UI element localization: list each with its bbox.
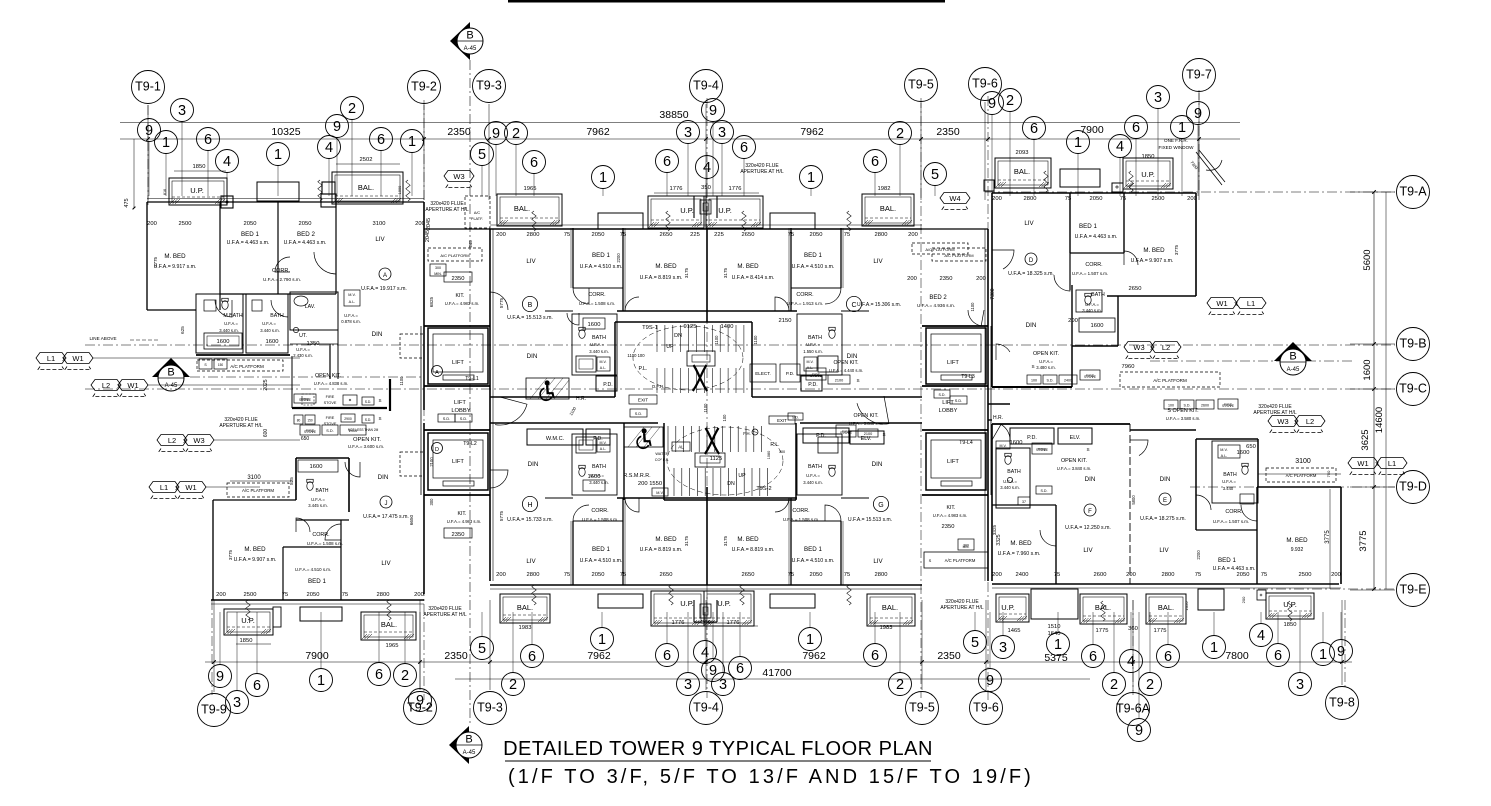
svg-text:H: H bbox=[527, 502, 532, 509]
svg-text:1965: 1965 bbox=[386, 643, 399, 649]
svg-text:2025: 2025 bbox=[263, 379, 269, 390]
svg-text:9: 9 bbox=[988, 96, 996, 112]
grid bubble T9-8 bbox=[1326, 687, 1359, 720]
svg-text:U.F.A.=: U.F.A.= bbox=[1003, 479, 1017, 484]
svg-text:1600: 1600 bbox=[217, 339, 230, 345]
grid bubble 2 bbox=[505, 122, 528, 145]
svg-text:3775: 3775 bbox=[153, 256, 158, 267]
svg-text:M. BED: M. BED bbox=[1010, 540, 1032, 547]
window screen mark bbox=[847, 585, 851, 605]
svg-text:UP: UP bbox=[738, 473, 746, 479]
svg-text:2050: 2050 bbox=[307, 592, 320, 598]
toilet fixture bbox=[829, 468, 835, 477]
grid bubble 1 bbox=[592, 166, 615, 189]
svg-text:U.P.: U.P. bbox=[1001, 603, 1015, 612]
leader line bbox=[531, 612, 533, 645]
svg-text:2350: 2350 bbox=[936, 126, 960, 138]
grid bubble 6 bbox=[521, 645, 544, 668]
leader line bbox=[1299, 612, 1301, 673]
unit D a/c platform bbox=[1120, 372, 1220, 387]
grid bubble 9 bbox=[979, 669, 1002, 692]
svg-text:A-45: A-45 bbox=[463, 750, 476, 756]
svg-text:6: 6 bbox=[528, 649, 536, 665]
svg-text:75: 75 bbox=[788, 232, 794, 238]
svg-text:WATER: WATER bbox=[655, 452, 669, 456]
unit E m.bed bbox=[1257, 486, 1341, 488]
a/c platform above kit bbox=[465, 196, 490, 228]
unit H outer walls bbox=[490, 584, 922, 586]
grid bubble 6 bbox=[656, 150, 679, 173]
svg-text:6: 6 bbox=[663, 154, 671, 170]
lower stair labels bbox=[672, 442, 690, 451]
window screen mark bbox=[669, 585, 673, 605]
svg-text:ELV.: ELV. bbox=[1070, 435, 1081, 441]
window tag W1 bbox=[1348, 458, 1378, 469]
svg-text:2.430 s.m.: 2.430 s.m. bbox=[293, 353, 313, 358]
svg-text:S.D.: S.D. bbox=[1041, 489, 1048, 493]
svg-text:1400: 1400 bbox=[721, 324, 734, 330]
leader line bbox=[899, 145, 901, 197]
svg-text:1080: 1080 bbox=[767, 451, 771, 459]
svg-text:1: 1 bbox=[1210, 640, 1218, 656]
svg-text:P.D.: P.D. bbox=[1027, 435, 1037, 441]
svg-text:9125: 9125 bbox=[684, 324, 697, 330]
svg-text:2: 2 bbox=[348, 101, 356, 117]
svg-text:APERTURE AT H/L: APERTURE AT H/L bbox=[425, 207, 469, 213]
structural pier bbox=[598, 213, 643, 229]
svg-text:U.P.: U.P. bbox=[241, 616, 255, 625]
grid bubble 9 bbox=[138, 119, 161, 142]
window tag L2 bbox=[91, 380, 121, 391]
svg-text:U.F.A.= 4.510 s.m.: U.F.A.= 4.510 s.m. bbox=[580, 264, 623, 270]
leader line bbox=[1138, 612, 1140, 719]
svg-text:OPEN KIT.: OPEN KIT. bbox=[853, 413, 878, 419]
svg-text:3.480 s.m.: 3.480 s.m. bbox=[1036, 365, 1056, 370]
svg-text:T9-3: T9-3 bbox=[477, 700, 503, 714]
wheelchair lower + hatch bbox=[624, 427, 663, 447]
svg-text:9: 9 bbox=[709, 103, 717, 119]
svg-text:U.F.A.= 4.463 s.m.: U.F.A.= 4.463 s.m. bbox=[1075, 234, 1118, 240]
svg-text:R.S.M.R.R.: R.S.M.R.R. bbox=[623, 473, 650, 479]
grid bubble 6 bbox=[864, 150, 887, 173]
svg-text:T9-A: T9-A bbox=[1399, 184, 1427, 198]
svg-text:1776: 1776 bbox=[670, 186, 683, 192]
toilet fixture bbox=[1242, 466, 1248, 475]
window tag L2 bbox=[1151, 342, 1181, 353]
grid bubble 1 bbox=[1312, 643, 1335, 666]
leader line bbox=[236, 612, 238, 691]
svg-text:U.F.A.=: U.F.A.= bbox=[590, 473, 604, 478]
grid bubble 3 bbox=[711, 121, 734, 144]
svg-text:ONE F.R.R.: ONE F.R.R. bbox=[1164, 138, 1188, 143]
svg-text:2: 2 bbox=[1146, 677, 1154, 693]
leader line bbox=[515, 145, 517, 197]
grid bubble 1 bbox=[591, 628, 614, 651]
svg-text:S.D.: S.D. bbox=[955, 399, 962, 403]
leader line bbox=[351, 120, 353, 197]
svg-text:CORR.: CORR. bbox=[796, 292, 813, 298]
svg-text:APERTURE AT H/L: APERTURE AT H/L bbox=[423, 612, 467, 618]
stair cross mark bbox=[705, 428, 719, 454]
svg-text:6: 6 bbox=[1132, 120, 1140, 136]
grid bubble 4 bbox=[696, 156, 719, 179]
svg-text:CORR.: CORR. bbox=[588, 292, 605, 298]
svg-text:9: 9 bbox=[492, 126, 500, 142]
corridor walls bbox=[490, 396, 615, 398]
grid bubble T9-C bbox=[1397, 373, 1430, 406]
window tag L2 bbox=[157, 435, 187, 446]
unit J door swings bbox=[325, 524, 341, 540]
svg-text:6: 6 bbox=[663, 648, 671, 664]
grid bubble 6 bbox=[1157, 645, 1180, 668]
right wing corridor walls bbox=[988, 403, 1010, 405]
grid bubble 4 bbox=[216, 150, 239, 173]
svg-text:2800: 2800 bbox=[875, 572, 888, 578]
window screen mark bbox=[406, 180, 410, 201]
svg-text:7962: 7962 bbox=[802, 650, 826, 662]
grid bubble 5 bbox=[964, 631, 987, 654]
section marker B A-45 bbox=[449, 726, 469, 764]
top dimension line second bbox=[120, 138, 1240, 140]
window screen mark bbox=[1044, 171, 1048, 192]
grid leader line bbox=[213, 600, 215, 692]
svg-text:U.F.A.= 1.508 s.m.: U.F.A.= 1.508 s.m. bbox=[783, 517, 819, 522]
svg-text:T9-8: T9-8 bbox=[1329, 695, 1355, 709]
unit A outer walls bbox=[147, 201, 424, 203]
grid bubble 1 bbox=[267, 143, 290, 166]
corridor hatch + wheelchair upper bbox=[526, 378, 569, 399]
grid bubble 6 bbox=[1082, 645, 1105, 668]
svg-text:3325: 3325 bbox=[992, 524, 997, 535]
leader line bbox=[739, 612, 741, 657]
svg-text:L1: L1 bbox=[1247, 299, 1255, 308]
window tag L1 bbox=[149, 482, 179, 493]
svg-text:6825: 6825 bbox=[429, 296, 434, 307]
svg-text:U.F.A.= 4.463 s.m.: U.F.A.= 4.463 s.m. bbox=[284, 240, 327, 246]
svg-text:STOVE: STOVE bbox=[304, 430, 317, 434]
svg-text:W3: W3 bbox=[193, 436, 204, 445]
svg-text:LIFT: LIFT bbox=[452, 459, 464, 465]
svg-text:1775: 1775 bbox=[1154, 628, 1167, 634]
unit A door swings bbox=[215, 300, 232, 317]
window screen mark bbox=[318, 180, 322, 201]
svg-text:S.D.: S.D. bbox=[635, 412, 642, 416]
svg-text:5: 5 bbox=[971, 635, 979, 651]
svg-text:1776: 1776 bbox=[727, 620, 740, 626]
svg-text:U.F.A.= 4.983 s.m.: U.F.A.= 4.983 s.m. bbox=[933, 513, 968, 518]
svg-text:1850: 1850 bbox=[240, 638, 253, 644]
svg-text:U.F.A.= 15.306 s.m.: U.F.A.= 15.306 s.m. bbox=[857, 302, 901, 308]
svg-text:A-45: A-45 bbox=[165, 383, 178, 389]
tag leader line bbox=[148, 384, 300, 386]
svg-text:3175: 3175 bbox=[723, 267, 728, 278]
svg-text:W3: W3 bbox=[453, 172, 464, 181]
svg-text:3625: 3625 bbox=[1360, 429, 1371, 450]
grid bubble T9-3 bbox=[474, 692, 507, 725]
lower core walls bbox=[663, 423, 665, 500]
svg-text:300: 300 bbox=[429, 498, 434, 506]
svg-text:U.F.A.= 8.414 s.m.: U.F.A.= 8.414 s.m. bbox=[732, 275, 775, 281]
unit B P.D. bbox=[596, 376, 617, 391]
lift T9-L4 bbox=[926, 433, 986, 490]
unit A bath band bbox=[196, 294, 243, 353]
grid bubble T9-2 bbox=[404, 692, 437, 725]
svg-text:2650: 2650 bbox=[1129, 286, 1142, 292]
svg-text:P.D.: P.D. bbox=[816, 433, 826, 439]
svg-text:2050: 2050 bbox=[1237, 572, 1250, 578]
balcony BAL. bbox=[361, 612, 416, 640]
unit F bath bbox=[996, 448, 1030, 508]
leader line bbox=[320, 612, 322, 669]
window tag W3 bbox=[184, 435, 214, 446]
upper core side boxes bbox=[614, 360, 616, 397]
lower stair arc bbox=[667, 427, 783, 495]
unit C partitions bbox=[840, 228, 842, 288]
grid leader line bbox=[1198, 93, 1200, 200]
svg-text:2502: 2502 bbox=[360, 157, 373, 163]
svg-text:A: A bbox=[383, 273, 387, 279]
svg-text:U.F.A.= 7.960 s.m.: U.F.A.= 7.960 s.m. bbox=[998, 551, 1041, 557]
svg-text:75: 75 bbox=[1065, 196, 1071, 202]
window tag W4 bbox=[940, 193, 970, 204]
lower core left wall bbox=[623, 423, 625, 500]
svg-text:7900: 7900 bbox=[1080, 124, 1104, 136]
svg-text:S: S bbox=[856, 378, 859, 383]
grid bubble T9-6A bbox=[1117, 693, 1150, 726]
svg-text:T9-1: T9-1 bbox=[135, 79, 161, 93]
grid bubble 6 bbox=[246, 674, 269, 697]
svg-text:BATH: BATH bbox=[808, 464, 822, 470]
svg-text:BAL.: BAL. bbox=[880, 204, 896, 213]
svg-text:9: 9 bbox=[1194, 106, 1202, 122]
leader line bbox=[1167, 612, 1169, 645]
svg-text:LIFT: LIFT bbox=[942, 400, 954, 406]
grid bubble 1 bbox=[310, 669, 333, 692]
svg-text:M. BED: M. BED bbox=[1286, 537, 1308, 544]
svg-text:M.V.: M.V. bbox=[999, 444, 1006, 448]
toilet fixture bbox=[222, 301, 228, 310]
svg-text:37: 37 bbox=[1022, 500, 1026, 504]
svg-text:W.M.C.: W.M.C. bbox=[546, 436, 565, 442]
grid leader line bbox=[985, 600, 987, 690]
grid leader line bbox=[423, 105, 425, 200]
section marker B A-45 bbox=[1274, 342, 1312, 361]
svg-text:W1: W1 bbox=[1216, 299, 1227, 308]
bottom dimension line bbox=[205, 661, 1352, 663]
leader line bbox=[512, 612, 514, 673]
svg-text:LIV: LIV bbox=[1159, 547, 1169, 554]
svg-text:1983: 1983 bbox=[519, 625, 532, 631]
leader line bbox=[481, 612, 483, 637]
svg-text:A/C PLATFORM: A/C PLATFORM bbox=[440, 253, 469, 258]
svg-text:9: 9 bbox=[216, 669, 224, 685]
svg-text:U.F.A.=: U.F.A.= bbox=[806, 342, 820, 347]
svg-text:7800: 7800 bbox=[1225, 650, 1249, 662]
svg-text:BATH: BATH bbox=[1223, 472, 1237, 478]
grid leader line bbox=[705, 104, 707, 200]
svg-text:2: 2 bbox=[1110, 677, 1118, 693]
grid bubble T9-7 bbox=[1183, 59, 1216, 92]
grid bubble 2 bbox=[502, 673, 525, 696]
svg-text:T9-6: T9-6 bbox=[973, 700, 999, 714]
svg-text:2: 2 bbox=[401, 668, 409, 684]
leader line bbox=[874, 173, 876, 197]
window tag L2 bbox=[1295, 416, 1325, 427]
svg-text:2350: 2350 bbox=[444, 650, 468, 662]
svg-text:2800: 2800 bbox=[527, 572, 540, 578]
leader line bbox=[1149, 612, 1151, 673]
svg-text:U.F.A.= 8.819 s.m.: U.F.A.= 8.819 s.m. bbox=[640, 275, 683, 281]
unit B partitions bbox=[572, 228, 574, 288]
window tag W1 bbox=[118, 380, 148, 391]
svg-text:T9-B: T9-B bbox=[1399, 336, 1426, 350]
grid bubble 6 bbox=[729, 657, 752, 680]
window screen mark bbox=[1288, 601, 1292, 621]
svg-text:U.F.A.= 17.475 s.m.: U.F.A.= 17.475 s.m. bbox=[363, 514, 409, 520]
svg-text:1: 1 bbox=[599, 170, 607, 186]
svg-text:6: 6 bbox=[1030, 121, 1038, 137]
svg-text:CORR.: CORR. bbox=[1225, 509, 1242, 515]
balcony U.P. bbox=[1123, 158, 1173, 189]
svg-text:P.D.: P.D. bbox=[786, 371, 794, 376]
svg-text:S.D.: S.D. bbox=[460, 417, 467, 421]
grid bubble T9-B bbox=[1397, 328, 1430, 361]
balcony U.P. bbox=[651, 591, 704, 626]
svg-text:M. BED: M. BED bbox=[655, 263, 677, 270]
leader line bbox=[404, 612, 406, 664]
grid bubble 9 bbox=[1330, 640, 1353, 663]
leader line bbox=[989, 612, 991, 669]
grid bubble 4 bbox=[1250, 624, 1273, 647]
svg-text:U.F.A.= 9.917 s.m.: U.F.A.= 9.917 s.m. bbox=[154, 264, 197, 270]
svg-text:FIRE: FIRE bbox=[326, 416, 335, 420]
svg-text:T9-9: T9-9 bbox=[201, 702, 227, 716]
svg-text:T9-4: T9-4 bbox=[693, 78, 719, 92]
window screen mark bbox=[740, 585, 744, 605]
toilet fixture bbox=[307, 482, 313, 491]
svg-text:A-45: A-45 bbox=[1287, 367, 1300, 373]
svg-text:75: 75 bbox=[1120, 196, 1126, 202]
lift T9-L2 bbox=[428, 433, 488, 490]
svg-text:B: B bbox=[167, 367, 174, 379]
svg-text:U.F.A.=: U.F.A.= bbox=[806, 473, 820, 478]
grid bubble 2 bbox=[394, 664, 417, 687]
svg-text:M. BED: M. BED bbox=[244, 546, 266, 553]
svg-text:2150: 2150 bbox=[779, 318, 792, 324]
tag leader line bbox=[214, 439, 300, 441]
svg-text:P.D.: P.D. bbox=[593, 436, 602, 442]
svg-text:1640: 1640 bbox=[1048, 631, 1061, 637]
svg-text:2045: 2045 bbox=[425, 230, 431, 242]
svg-text:600: 600 bbox=[263, 429, 269, 438]
window screen mark bbox=[387, 600, 391, 620]
svg-text:LIV: LIV bbox=[873, 558, 883, 565]
svg-text:BAL.: BAL. bbox=[381, 620, 397, 629]
svg-text:LAV.: LAV. bbox=[305, 304, 315, 310]
grid axis T9-D horizontal bbox=[1190, 486, 1395, 488]
svg-text:CORR.: CORR. bbox=[312, 532, 329, 538]
grid leader line bbox=[1132, 600, 1134, 691]
grid bubble 6 bbox=[864, 644, 887, 667]
leader line bbox=[1157, 109, 1159, 197]
svg-text:BAL.: BAL. bbox=[1158, 603, 1174, 612]
svg-text:S.D.: S.D. bbox=[443, 417, 450, 421]
svg-text:1: 1 bbox=[162, 135, 170, 151]
balcony BAL. bbox=[500, 594, 550, 623]
svg-text:200: 200 bbox=[415, 221, 425, 227]
svg-text:2093: 2093 bbox=[1016, 150, 1029, 156]
svg-text:200: 200 bbox=[1331, 572, 1341, 578]
svg-text:1600: 1600 bbox=[1237, 450, 1250, 456]
unit A partitions bbox=[219, 202, 221, 310]
leader line bbox=[687, 144, 689, 197]
svg-text:W1: W1 bbox=[127, 381, 138, 390]
grid leader line bbox=[419, 600, 421, 690]
svg-text:6: 6 bbox=[740, 140, 748, 156]
svg-text:U.P.: U.P. bbox=[190, 186, 204, 195]
svg-text:T9-4: T9-4 bbox=[693, 700, 719, 714]
svg-text:S.D.: S.D. bbox=[1047, 378, 1054, 382]
grid bubble 6 bbox=[733, 136, 756, 159]
svg-text:U.F.A.= 12.250 s.m.: U.F.A.= 12.250 s.m. bbox=[1065, 525, 1111, 531]
svg-text:G: G bbox=[878, 502, 883, 509]
svg-text:825: 825 bbox=[289, 477, 294, 485]
svg-text:3: 3 bbox=[233, 695, 241, 711]
grid bubble 4 bbox=[694, 641, 717, 664]
svg-text:200: 200 bbox=[907, 276, 917, 282]
grid bubble 2 bbox=[889, 122, 912, 145]
unit C bath cluster bbox=[797, 314, 842, 375]
grid bubble 2 bbox=[999, 89, 1022, 112]
svg-text:M.V.: M.V. bbox=[656, 491, 663, 495]
exit and sd boxes bbox=[629, 395, 657, 404]
unit A kitchen row1 bbox=[302, 394, 314, 405]
window screen mark bbox=[1129, 171, 1133, 192]
svg-text:245: 245 bbox=[468, 240, 473, 248]
grid axis T9-E horizontal bbox=[1240, 588, 1395, 590]
structural pier bbox=[598, 594, 643, 608]
leader line bbox=[934, 186, 936, 197]
svg-text:1600: 1600 bbox=[266, 339, 279, 345]
svg-text:T9-L3: T9-L3 bbox=[961, 374, 975, 380]
svg-text:3100: 3100 bbox=[1295, 458, 1311, 465]
svg-text:5775: 5775 bbox=[499, 297, 504, 308]
svg-text:2045: 2045 bbox=[426, 218, 432, 230]
svg-text:M. BED: M. BED bbox=[655, 536, 677, 543]
leader line bbox=[1092, 612, 1094, 645]
svg-text:75: 75 bbox=[620, 572, 626, 578]
svg-text:1: 1 bbox=[1319, 647, 1327, 663]
svg-text:U.F.A.= 1.507 s.m.: U.F.A.= 1.507 s.m. bbox=[1072, 271, 1108, 276]
svg-text:9: 9 bbox=[709, 663, 717, 679]
grid bubble 9 bbox=[326, 115, 349, 138]
svg-text:200: 200 bbox=[216, 592, 226, 598]
leader line bbox=[411, 153, 413, 197]
svg-text:U.F.A.= 3.840 s.m.: U.F.A.= 3.840 s.m. bbox=[1057, 466, 1092, 471]
svg-text:9: 9 bbox=[416, 693, 424, 709]
grid bubble 1 bbox=[1203, 636, 1226, 659]
svg-text:DETAILED TOWER 9 TYPICAL FLOOR: DETAILED TOWER 9 TYPICAL FLOOR PLAN bbox=[503, 738, 933, 760]
lift T9-L3 bbox=[926, 328, 986, 384]
svg-text:625: 625 bbox=[180, 326, 185, 334]
svg-text:2: 2 bbox=[1006, 93, 1014, 109]
right dimension line outer 14600 bbox=[1385, 192, 1387, 589]
grid leader line bbox=[1350, 486, 1395, 488]
grid bubble 6 bbox=[1267, 644, 1290, 667]
svg-text:1: 1 bbox=[1178, 120, 1186, 136]
balcony BAL. bbox=[332, 172, 403, 204]
svg-text:750: 750 bbox=[1326, 470, 1331, 477]
